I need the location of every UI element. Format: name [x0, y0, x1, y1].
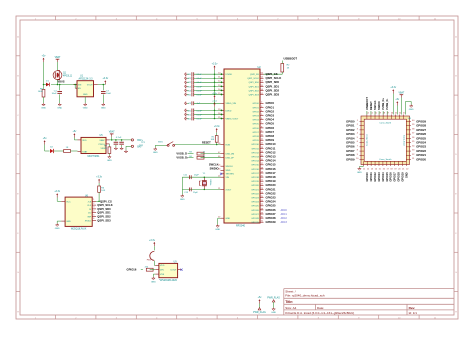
svg-text:GPIO23: GPIO23	[266, 196, 277, 200]
svg-text:G: G	[17, 272, 19, 274]
svg-text:XOUT: XOUT	[226, 189, 233, 191]
svg-text:DIN: DIN	[160, 270, 164, 272]
svg-text:GPIO16: GPIO16	[127, 268, 137, 272]
svg-text:/HOLD: /HOLD	[85, 220, 92, 222]
svg-text:EN: EN	[78, 88, 81, 90]
svg-text:GPIO7: GPIO7	[266, 130, 275, 134]
svg-text:DVDD: DVDD	[226, 110, 232, 112]
svg-text:0.1uF: 0.1uF	[197, 94, 203, 96]
svg-text:Size: A4: Size: A4	[285, 306, 296, 310]
svg-text:XIN: XIN	[226, 177, 230, 179]
svg-text:4P03L11: 4P03L11	[63, 75, 73, 77]
svg-text:GPIO11: GPIO11	[266, 146, 276, 150]
svg-text:GPIO29: GPIO29	[266, 220, 277, 224]
svg-text:GPIO6: GPIO6	[346, 145, 355, 149]
svg-text:VIN: VIN	[78, 85, 82, 87]
svg-text:QSPI_SD2: QSPI_SD2	[266, 88, 280, 92]
svg-text:*WS2812B-2020: *WS2812B-2020	[159, 279, 177, 282]
svg-text:USBBOOT: USBBOOT	[365, 97, 369, 110]
svg-text:VBUS: VBUS	[58, 81, 65, 84]
svg-text:VBAT: VBAT	[398, 92, 404, 95]
svg-text:GPIO7: GPIO7	[346, 149, 355, 153]
svg-text:GPIO19: GPIO19	[251, 181, 259, 183]
svg-text:GPIO12: GPIO12	[266, 150, 277, 154]
svg-text:GPIO17: GPIO17	[251, 173, 259, 175]
svg-text:GPIO27: GPIO27	[266, 212, 277, 216]
svg-text:GND: GND	[357, 172, 362, 174]
svg-text:4.7uF: 4.7uF	[116, 137, 122, 139]
svg-text:GPIO24: GPIO24	[416, 141, 426, 145]
svg-text:GPIO22: GPIO22	[416, 149, 426, 153]
svg-text:GND: GND	[180, 199, 185, 201]
svg-text:GPIO6: GPIO6	[252, 128, 259, 130]
svg-text:AP2112K-3.3: AP2112K-3.3	[78, 77, 93, 80]
svg-text:QSPI_SS: QSPI_SS	[250, 74, 260, 76]
svg-text:GPIO15: GPIO15	[251, 165, 259, 167]
svg-text:GPIO3: GPIO3	[346, 132, 355, 136]
svg-text:GPIO20: GPIO20	[251, 185, 259, 187]
svg-text:GPIO3: GPIO3	[266, 114, 275, 118]
svg-text:GPIO4: GPIO4	[266, 118, 275, 122]
svg-text:+3.3v: +3.3v	[212, 63, 219, 65]
svg-text:SWCLK: SWCLK	[373, 100, 377, 110]
svg-text:GND: GND	[409, 109, 414, 111]
svg-text:GPIO15: GPIO15	[266, 163, 277, 167]
svg-text:GPIO10: GPIO10	[251, 144, 259, 146]
svg-text:VDD: VDD	[160, 265, 165, 267]
svg-text:GND: GND	[41, 108, 46, 110]
svg-text:DOUT: DOUT	[171, 270, 178, 272]
svg-text:GPIO19: GPIO19	[401, 172, 405, 182]
svg-text:ADC2: ADC2	[281, 217, 288, 220]
svg-text:SWCLK: SWCLK	[226, 166, 234, 168]
svg-text:QSPI_SD1: QSPI_SD1	[249, 86, 260, 88]
svg-text:Conn_West: Conn_West	[366, 134, 369, 146]
svg-text:GPIO16: GPIO16	[266, 167, 277, 171]
svg-text:GPIO9: GPIO9	[346, 157, 355, 161]
svg-text:Conn_East: Conn_East	[403, 135, 406, 146]
svg-text:QSPI_SD3: QSPI_SD3	[97, 218, 111, 222]
svg-text:0.1uF: 0.1uF	[197, 78, 203, 80]
svg-text:GPIO8: GPIO8	[266, 134, 275, 138]
svg-text:SWDIO: SWDIO	[377, 101, 381, 110]
svg-text:GPIO23: GPIO23	[416, 145, 426, 149]
svg-text:Conn_North: Conn_North	[379, 121, 392, 124]
svg-text:RESET: RESET	[202, 141, 211, 145]
svg-text:RUN: RUN	[226, 144, 231, 146]
svg-text:QSPI_SD0: QSPI_SD0	[249, 82, 260, 84]
svg-text:VREG_VOUT: VREG_VOUT	[226, 119, 240, 121]
svg-text:GPIO1: GPIO1	[266, 105, 275, 109]
svg-text:Date:: Date:	[317, 306, 324, 310]
svg-text:GPIO5: GPIO5	[252, 124, 259, 126]
svg-text:GND: GND	[153, 152, 158, 154]
svg-text:USB_DM: USB_DM	[226, 154, 235, 156]
svg-text:QSPI_SD3: QSPI_SD3	[249, 94, 260, 96]
svg-text:STAT: STAT	[82, 150, 88, 153]
svg-text:IOVDD: IOVDD	[226, 74, 233, 76]
svg-text:+1v1: +1v1	[212, 101, 218, 103]
svg-text:GPIO18: GPIO18	[397, 172, 401, 182]
svg-text:GPIO19: GPIO19	[266, 179, 277, 183]
svg-text:CLK: CLK	[87, 205, 92, 207]
svg-text:GPIO16: GPIO16	[389, 172, 393, 182]
svg-text:GND: GND	[271, 312, 276, 314]
svg-text:GPIO5: GPIO5	[346, 141, 355, 145]
svg-text:GPIO25: GPIO25	[251, 206, 259, 208]
svg-text:GND: GND	[83, 94, 88, 96]
svg-text:GPIO2: GPIO2	[346, 128, 355, 132]
svg-text:GPIO16: GPIO16	[251, 169, 259, 171]
svg-text:ADC0: ADC0	[281, 209, 288, 212]
svg-text:GPIO1: GPIO1	[252, 107, 259, 109]
svg-text:GND: GND	[57, 108, 62, 110]
svg-text:QSPI_SD2: QSPI_SD2	[249, 90, 260, 92]
svg-text:GPIO24: GPIO24	[251, 202, 259, 204]
svg-text:MCP73831: MCP73831	[88, 155, 101, 158]
svg-text:PWR_FLAG: PWR_FLAG	[267, 296, 280, 299]
svg-text:GPIO18: GPIO18	[266, 175, 277, 179]
svg-text:0.1uF: 0.1uF	[197, 86, 203, 88]
svg-text:GPIO13: GPIO13	[251, 157, 259, 159]
svg-text:GPIO22: GPIO22	[251, 193, 259, 195]
svg-text:/CS: /CS	[88, 201, 92, 203]
svg-text:GND: GND	[226, 218, 231, 220]
svg-text:GPIO4: GPIO4	[346, 136, 355, 140]
svg-text:SWD: SWD	[226, 170, 231, 172]
svg-text:GPIO5: GPIO5	[266, 122, 275, 126]
svg-text:GPIO17: GPIO17	[393, 172, 397, 182]
svg-text:QSPI_SD1: QSPI_SD1	[97, 211, 111, 215]
svg-text:GPIO21: GPIO21	[251, 189, 259, 191]
svg-text:0.1uF: 0.1uF	[197, 90, 203, 92]
svg-text:QSPI_CS: QSPI_CS	[100, 199, 112, 203]
svg-text:RESET: RESET	[369, 101, 373, 110]
svg-text:GPIO28: GPIO28	[416, 124, 426, 128]
svg-text:+3.3v: +3.3v	[214, 126, 221, 128]
svg-text:QSPI_SD1: QSPI_SD1	[266, 84, 280, 88]
svg-text:GPIO14: GPIO14	[251, 161, 259, 163]
svg-text:VREG_VIN: VREG_VIN	[226, 103, 237, 105]
svg-text:GPIO13: GPIO13	[266, 155, 277, 159]
svg-text:0.1uF: 0.1uF	[197, 82, 203, 84]
svg-text:VDD: VDD	[82, 140, 87, 142]
svg-text:GND: GND	[101, 108, 106, 110]
svg-text:Conn_South: Conn_South	[379, 158, 392, 161]
svg-text:15pF: 15pF	[193, 192, 198, 194]
svg-text:File: rp2040_demo.kicad_sch: File: rp2040_demo.kicad_sch	[285, 294, 325, 298]
svg-text:GND: GND	[107, 160, 112, 162]
svg-text:VUSB_D+: VUSB_D+	[176, 156, 189, 160]
svg-text:VOUT: VOUT	[87, 85, 94, 87]
svg-text:GPIO0: GPIO0	[252, 103, 259, 105]
svg-text:GPIO23: GPIO23	[251, 198, 259, 200]
svg-text:10uF: 10uF	[106, 93, 112, 95]
svg-text:GPIO20: GPIO20	[266, 183, 277, 187]
svg-text:10K: 10K	[101, 190, 105, 192]
svg-text:GPIO0: GPIO0	[266, 101, 275, 105]
svg-text:GPIO2: GPIO2	[252, 111, 259, 113]
svg-text:VBAT: VBAT	[99, 139, 105, 142]
svg-text:+3.3v: +3.3v	[54, 191, 61, 193]
svg-text:+3.3v: +3.3v	[212, 93, 218, 95]
svg-text:GPIO11: GPIO11	[369, 172, 373, 182]
svg-text:GND: GND	[83, 108, 88, 110]
svg-text:0.1uF: 0.1uF	[197, 110, 203, 112]
svg-text:GPIO18: GPIO18	[251, 177, 259, 179]
svg-text:VBAT: VBAT	[55, 56, 61, 59]
svg-text:VSS: VSS	[160, 274, 165, 276]
svg-text:0.1uF: 0.1uF	[197, 118, 203, 120]
svg-text:GPIO14: GPIO14	[266, 159, 277, 163]
svg-text:GND: GND	[404, 172, 408, 178]
svg-text:GPIO10: GPIO10	[266, 142, 277, 146]
svg-text:GPIO6: GPIO6	[266, 126, 275, 130]
svg-text:GPIO13: GPIO13	[377, 172, 381, 182]
svg-text:PWR_FLAG: PWR_FLAG	[253, 311, 266, 314]
svg-text:GND: GND	[55, 228, 60, 230]
svg-text:SW1: SW1	[158, 141, 164, 143]
svg-text:TESTEN: TESTEN	[226, 174, 235, 176]
svg-text:10uF: 10uF	[52, 93, 58, 95]
svg-text:GPIO3: GPIO3	[252, 116, 259, 118]
svg-text:QSPI_CS: QSPI_CS	[266, 72, 278, 76]
svg-text:VUSB_D-: VUSB_D-	[176, 151, 188, 155]
svg-text:GPIO12: GPIO12	[373, 172, 377, 182]
svg-text:VCC: VCC	[66, 201, 71, 203]
svg-text:GPIO20: GPIO20	[416, 157, 426, 161]
svg-text:15pF: 15pF	[194, 175, 199, 177]
svg-text:VUSB_D+: VUSB_D+	[381, 97, 385, 110]
svg-text:GPIO10: GPIO10	[365, 172, 369, 182]
svg-text:QSPI_SD3: QSPI_SD3	[266, 92, 280, 96]
svg-text:GND: GND	[66, 221, 71, 223]
svg-text:GPIO1: GPIO1	[346, 124, 355, 128]
svg-text:GPIO17: GPIO17	[266, 171, 277, 175]
svg-text:+3.3v: +3.3v	[149, 239, 156, 242]
svg-text:W25Q16JVUX: W25Q16JVUX	[71, 228, 87, 231]
svg-text:GPIO26: GPIO26	[416, 132, 426, 136]
svg-text:100K: 100K	[38, 91, 44, 93]
svg-text:QSPI_SD2: QSPI_SD2	[97, 215, 111, 219]
svg-text:GPIO29: GPIO29	[416, 119, 426, 123]
svg-text:+3.3v: +3.3v	[96, 176, 103, 178]
svg-text:/WP: /WP	[87, 217, 92, 219]
svg-text:ADC1: ADC1	[281, 213, 288, 216]
svg-text:Id: 1/1: Id: 1/1	[409, 311, 418, 315]
svg-text:+3.3v: +3.3v	[102, 78, 109, 80]
svg-text:G: G	[455, 272, 457, 274]
svg-text:GPIO7: GPIO7	[252, 132, 259, 134]
svg-text:12MHz: 12MHz	[209, 179, 211, 185]
svg-text:0.1uF: 0.1uF	[197, 74, 203, 76]
svg-text:GPIO4: GPIO4	[252, 120, 259, 122]
svg-text:QSPI_SD0: QSPI_SD0	[266, 80, 280, 84]
svg-text:GPIO12: GPIO12	[251, 152, 259, 154]
svg-text:GPIO22: GPIO22	[266, 191, 277, 195]
svg-text:GPIO25: GPIO25	[266, 204, 277, 208]
svg-text:GPIO24: GPIO24	[266, 200, 277, 204]
svg-text:GPIO11: GPIO11	[251, 148, 259, 150]
svg-text:VBAT: VBAT	[109, 131, 115, 134]
svg-text:RP2040: RP2040	[236, 225, 246, 228]
svg-text:USB_DP: USB_DP	[226, 158, 235, 160]
svg-text:GPIO9: GPIO9	[252, 140, 259, 142]
svg-text:GPIO28: GPIO28	[251, 218, 259, 220]
svg-text:GND: GND	[215, 229, 220, 231]
svg-text:10K: 10K	[211, 139, 215, 141]
svg-text:Title:: Title:	[285, 300, 293, 304]
svg-text:GPIO25: GPIO25	[416, 136, 426, 140]
svg-text:VUSB_D-: VUSB_D-	[385, 98, 389, 110]
svg-text:QSPI_SD0: QSPI_SD0	[97, 207, 111, 211]
svg-text:QSPI_SCLK: QSPI_SCLK	[266, 76, 282, 80]
svg-text:+3.3v: +3.3v	[390, 87, 397, 89]
svg-text:GPIO21: GPIO21	[416, 153, 426, 157]
svg-text:GPIO8: GPIO8	[346, 153, 355, 157]
svg-text:0.1uF: 0.1uF	[197, 114, 203, 116]
svg-text:GPIO26: GPIO26	[251, 210, 259, 212]
svg-text:GPIO14: GPIO14	[381, 172, 385, 182]
svg-text:QSPI_SCLK: QSPI_SCLK	[247, 78, 259, 80]
svg-text:GPIO8: GPIO8	[252, 136, 259, 138]
svg-text:GPIO2: GPIO2	[266, 109, 275, 113]
svg-text:Rev:: Rev:	[409, 306, 416, 310]
svg-text:GPIO0: GPIO0	[346, 119, 355, 123]
svg-text:GPIO28: GPIO28	[266, 216, 277, 220]
svg-text:GPIO27: GPIO27	[416, 128, 426, 132]
svg-text:DO: DO	[88, 213, 92, 215]
svg-text:ADC3: ADC3	[281, 221, 288, 224]
svg-text:KiCad E.D.A. kicad (6.0.0~rc1: KiCad E.D.A. kicad (6.0.0~rc1~161~g99ec2…	[285, 311, 354, 315]
svg-text:QSPI_SCLK: QSPI_SCLK	[97, 203, 112, 207]
svg-text:GND: GND	[151, 281, 156, 283]
svg-text:GPIO26: GPIO26	[266, 208, 277, 212]
svg-text:GPIO15: GPIO15	[385, 172, 389, 182]
svg-text:GPIO29: GPIO29	[251, 222, 259, 224]
svg-text:GPIO9: GPIO9	[266, 138, 275, 142]
svg-text:GPIO27: GPIO27	[251, 214, 259, 216]
svg-text:GPIO21: GPIO21	[266, 187, 277, 191]
svg-text:USBBOOT: USBBOOT	[284, 56, 298, 60]
